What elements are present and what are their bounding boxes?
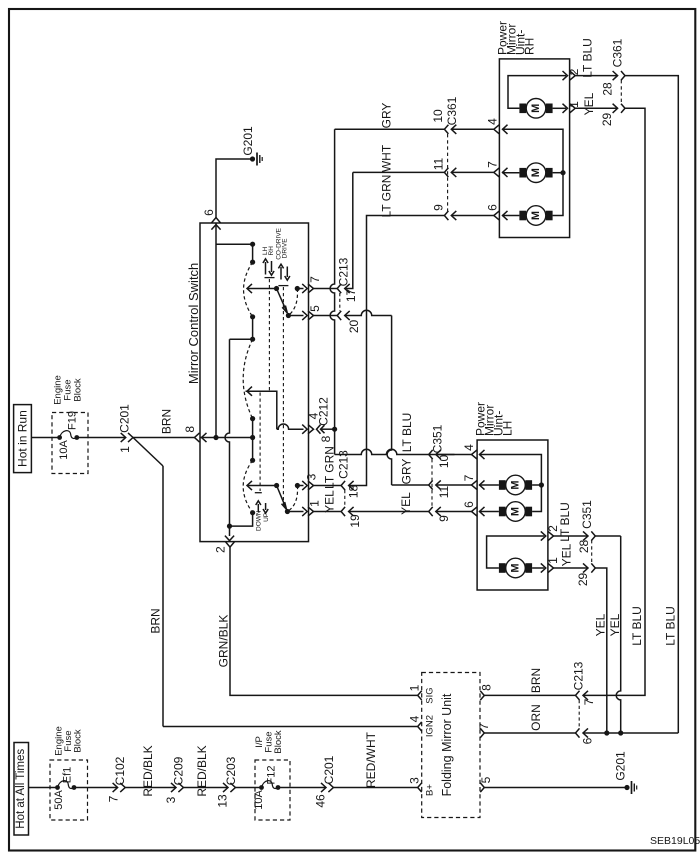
svg-text:5: 5 <box>308 305 322 312</box>
svg-text:7: 7 <box>582 698 596 705</box>
fuse F12 10A <box>253 766 280 810</box>
switch pin 5 <box>308 305 322 320</box>
wire switch pin 1 to C213 <box>314 490 342 513</box>
wire YEL right drop <box>583 108 645 695</box>
connector C351 right dashed link <box>591 540 593 564</box>
svg-text:C201: C201 <box>322 755 336 784</box>
svg-text:RED/BLK: RED/BLK <box>141 745 155 796</box>
svg-text:YEL: YEL <box>399 492 413 515</box>
svg-text:C212: C212 <box>316 397 330 426</box>
svg-text:20: 20 <box>347 320 361 334</box>
svg-text:29: 29 <box>600 113 614 127</box>
svg-text:B+: B+ <box>425 784 436 796</box>
svg-text:Hot in Run: Hot in Run <box>16 410 30 467</box>
switch contact chain upper <box>216 242 255 342</box>
svg-text:1: 1 <box>546 557 560 564</box>
connector C213 pin 19 <box>341 507 362 528</box>
wire YEL LH pin 1 to C351-29 <box>554 543 589 568</box>
svg-text:YEL: YEL <box>582 92 596 115</box>
svg-text:C361: C361 <box>610 38 624 67</box>
svg-text:3: 3 <box>164 796 178 803</box>
svg-text:29: 29 <box>576 573 590 587</box>
switch pin 4 <box>306 412 320 433</box>
svg-text:BRN: BRN <box>149 608 163 633</box>
connector C213 pin 6 (bottom) <box>576 728 595 744</box>
svg-text:C361: C361 <box>445 96 459 125</box>
switch labels LH RH <box>262 246 275 275</box>
ground G201 bottom <box>614 751 637 794</box>
wire GRY row to C351 pin 11 <box>392 484 429 486</box>
svg-text:6: 6 <box>202 209 216 216</box>
connector C351 pin 28 <box>577 500 595 553</box>
wire C351-11 to LH pin 7 <box>436 484 472 486</box>
switch selector linkage dashed lines <box>260 279 283 506</box>
connector C351 dashed link <box>431 459 433 506</box>
svg-text:C213: C213 <box>572 661 586 690</box>
wire LT BLU riser down (to C351-11) <box>387 316 414 486</box>
motor RH vertical-drive <box>519 104 526 114</box>
svg-text:M: M <box>530 104 542 113</box>
folding pin 3 B+ <box>407 777 435 796</box>
folding pin 7 <box>477 723 491 738</box>
unit RH pin 1 <box>567 101 581 113</box>
svg-text:IGN2: IGN2 <box>425 715 436 737</box>
wire C351-9 to LH pin 6 <box>436 511 472 513</box>
switch pin 8 <box>183 426 207 442</box>
wire RH pin 4 inner rail <box>502 129 566 215</box>
wire BRN folding pin 8 to C213-7 <box>484 668 575 696</box>
svg-text:C213: C213 <box>337 257 351 286</box>
wire GRN/BLK switch pin 2 to folding pin 1 <box>217 547 418 695</box>
connector C351 pin 9 <box>429 507 451 522</box>
svg-text:4: 4 <box>485 118 499 125</box>
svg-text:DRIVE: DRIVE <box>282 238 289 259</box>
svg-text:G201: G201 <box>614 751 628 781</box>
svg-text:7: 7 <box>308 276 322 283</box>
connector C201 pin 1 <box>118 404 133 453</box>
switch contact to pin 3 <box>287 481 307 512</box>
switch contact to pin 1 <box>287 511 303 513</box>
fuse block Engine Fuse Block (F19) <box>52 375 88 473</box>
svg-text:ORN: ORN <box>529 704 543 731</box>
connector C209 pin 3 <box>164 756 186 803</box>
switch pin 7 <box>308 276 322 293</box>
wire RH motor3 to pin 6 <box>502 215 519 217</box>
wire RH motor1 to pin 1 <box>553 107 566 109</box>
fuse Ef1 50A <box>53 767 76 810</box>
switch arm lower (DOWN/UP select) <box>247 481 290 514</box>
wire WHT C213-17 riser <box>345 172 353 288</box>
wire C361-10 to RH pin 4 <box>451 128 494 130</box>
svg-text:Block: Block <box>273 730 284 753</box>
svg-text:YEL: YEL <box>560 543 574 566</box>
wire C203 to fuse F12 <box>235 787 261 789</box>
folding pin 1 SIG <box>407 684 435 703</box>
svg-text:6: 6 <box>485 204 499 211</box>
wire C213-6 junction row <box>583 730 678 735</box>
switch labels DOWN UP <box>256 501 271 531</box>
switch contact to pin 7 <box>288 284 307 316</box>
svg-text:M: M <box>510 480 522 489</box>
svg-text:RED/WHT: RED/WHT <box>364 731 378 788</box>
svg-text:LH: LH <box>501 421 515 436</box>
svg-text:WHT: WHT <box>380 144 394 172</box>
svg-text:7: 7 <box>477 723 491 730</box>
unit LH pin 4 <box>462 444 485 459</box>
svg-text:28: 28 <box>601 82 615 96</box>
wire Hot in Run to fuse F19 <box>31 437 59 439</box>
unit box Folding Mirror Unit <box>422 673 480 818</box>
svg-text:1: 1 <box>567 101 581 108</box>
svg-text:10A: 10A <box>253 790 265 810</box>
svg-text:LT GRN: LT GRN <box>380 175 394 218</box>
switch pin 1 <box>308 500 322 516</box>
ground G201 top <box>241 126 262 166</box>
switch contact chain middle <box>243 339 255 463</box>
connector C102 pin 7 <box>107 756 128 802</box>
wire LT BLU RH pin 2 to C361-28 <box>575 38 617 78</box>
svg-text:9: 9 <box>437 515 451 522</box>
node Hot at All Times <box>14 743 29 836</box>
svg-text:4: 4 <box>462 444 476 451</box>
switch pin 2 <box>214 542 235 553</box>
motor LH co-drive <box>499 507 506 517</box>
wire BRN branch diagonal <box>133 438 163 467</box>
wire Hot at All Times to fuse Ef1 <box>29 787 58 789</box>
svg-text:10A: 10A <box>58 440 70 460</box>
svg-text:LT BLU: LT BLU <box>558 502 572 542</box>
svg-text:8: 8 <box>319 435 333 442</box>
connector C203 pin 13 <box>216 756 239 807</box>
unit RH pin 6 <box>485 204 507 220</box>
svg-text:C201: C201 <box>118 404 132 433</box>
wire C361-9 to RH pin 6 <box>451 215 494 217</box>
svg-text:28: 28 <box>577 540 591 554</box>
switch contact to pin 5 <box>288 315 303 317</box>
wire C361-11 to RH pin 7 <box>451 171 494 173</box>
svg-text:F19: F19 <box>67 411 79 430</box>
svg-text:6: 6 <box>462 501 476 508</box>
wire YEL drop from C351-29 <box>594 568 608 733</box>
wire RH motor1 loop to pin 2 <box>508 76 566 109</box>
connector C213 pin 20 <box>337 311 361 333</box>
connector C361 pin 10 <box>431 96 459 134</box>
wire YEL RH pin 1 to C361-29 <box>575 92 617 115</box>
svg-text:G201: G201 <box>241 126 255 156</box>
svg-text:UP: UP <box>263 513 270 522</box>
unit RH pin 4 <box>485 118 507 134</box>
svg-text:M: M <box>530 168 542 177</box>
svg-text:SIG: SIG <box>425 687 436 703</box>
svg-text:C351: C351 <box>580 500 594 529</box>
wire RED/BLK C209 to C203 <box>183 745 228 796</box>
connector C361 pin 28 <box>601 38 625 95</box>
svg-text:1: 1 <box>308 500 322 507</box>
wire LH motor-h to pin 7 <box>479 484 499 486</box>
svg-text:7: 7 <box>462 474 476 481</box>
wire LH motor-h to rail <box>532 484 541 486</box>
svg-text:Folding Mirror Unit: Folding Mirror Unit <box>440 693 454 796</box>
svg-text:RED/BLK: RED/BLK <box>195 745 209 796</box>
svg-text:11: 11 <box>437 485 451 498</box>
svg-text:18: 18 <box>346 485 360 499</box>
connector C351 pin 10 <box>429 424 451 468</box>
wire switch pin 6 rail <box>211 223 220 440</box>
svg-text:GRY: GRY <box>399 459 413 485</box>
fuse F19 10A <box>57 411 79 460</box>
wire GRY riser (C361-10 to C351-10) <box>322 129 336 489</box>
motor RH horizontal-drive <box>519 168 526 178</box>
svg-text:BRN: BRN <box>529 668 543 693</box>
wire folding pin 5 to ground <box>484 787 627 789</box>
folding pin 5 <box>479 776 493 792</box>
svg-text:LT GRN: LT GRN <box>322 446 336 489</box>
svg-text:Block: Block <box>73 729 84 752</box>
wire YEL drop from C351-28 <box>595 536 622 733</box>
svg-text:3: 3 <box>407 777 421 784</box>
svg-text:13: 13 <box>216 794 230 808</box>
connector C213 pin 7 (bottom) <box>572 661 597 728</box>
svg-text:LT BLU: LT BLU <box>664 606 678 646</box>
svg-text:YEL: YEL <box>594 613 608 636</box>
svg-text:C213: C213 <box>336 450 350 479</box>
wire BRN C201 to switch pin 8 <box>133 409 195 438</box>
svg-text:YEL: YEL <box>608 613 622 636</box>
wire LT GRN row to C351 pin 10 <box>335 449 455 454</box>
svg-text:GRY: GRY <box>380 103 394 129</box>
svg-text:6: 6 <box>581 737 595 744</box>
svg-text:LT BLU: LT BLU <box>580 38 594 78</box>
motor RH co-drive <box>519 211 526 221</box>
motor LH horizontal-drive <box>499 480 506 490</box>
connector C361 pin 29 <box>600 104 625 126</box>
svg-text:50A: 50A <box>53 790 65 810</box>
svg-text:M: M <box>530 211 542 220</box>
wire LT BLU C213-20 to riser <box>345 310 392 315</box>
svg-text:10: 10 <box>431 109 445 123</box>
unit box Power Mirror Uint-LH <box>474 402 548 590</box>
wire BRN vertical to folding mirror unit <box>149 466 164 727</box>
svg-text:RH: RH <box>268 246 275 256</box>
wire RED/WHT C201 to folding pin 3 <box>333 731 417 788</box>
wire LH motor-v to pin 1 <box>532 567 544 569</box>
wire switch common rail to pin 2 <box>225 339 253 540</box>
wire fuse F19 to C201 <box>77 437 126 439</box>
svg-text:8: 8 <box>479 684 493 691</box>
connector C361 dashed link <box>447 134 449 211</box>
connector C361 pin 11 <box>432 157 457 177</box>
switch arm middle (drive) to pin 4 <box>246 387 308 434</box>
svg-text:RH: RH <box>523 38 537 55</box>
unit LH pin 1 <box>546 557 560 573</box>
switch selector bars <box>255 278 289 493</box>
wire RH motor2 to rail <box>553 172 563 174</box>
unit RH pin 7 <box>485 161 507 177</box>
wire LT BLU right drop <box>625 76 678 733</box>
wire BRN horizontal to folding pin 4 <box>163 726 418 728</box>
connector C201 pin 46 <box>314 755 337 807</box>
connector C212 pin 8 <box>316 397 333 443</box>
wire LH motor-v loop to pin 2 <box>487 536 545 568</box>
folding pin 8 <box>479 684 493 700</box>
wire fuse F12 to C201 <box>278 787 326 789</box>
svg-text:7: 7 <box>107 795 121 802</box>
svg-text:2: 2 <box>214 546 228 553</box>
svg-text:C209: C209 <box>172 756 186 785</box>
svg-text:LT BLU: LT BLU <box>400 413 414 453</box>
svg-text:BRN: BRN <box>159 409 173 434</box>
fuse block Engine Fuse Block (Ef1) <box>50 726 88 820</box>
wire switch pin 6 to ground G201 <box>216 159 253 218</box>
connector C213 pin 17 <box>337 257 358 311</box>
svg-text:1: 1 <box>407 684 421 691</box>
svg-text:11: 11 <box>432 157 446 170</box>
wire YEL C213-19 to C351 pin 9 <box>349 492 429 515</box>
connector C361 pin 9 <box>432 204 457 220</box>
svg-text:4: 4 <box>407 715 421 722</box>
wire RH motor2 to pin 7 <box>502 172 519 174</box>
svg-text:3: 3 <box>305 473 319 480</box>
unit LH pin 2 <box>546 525 560 541</box>
svg-text:DOWN: DOWN <box>256 510 263 531</box>
svg-text:7: 7 <box>485 161 499 168</box>
unit RH pin 2 <box>567 68 581 80</box>
wire ORN folding pin 7 to C213-6 <box>484 704 575 733</box>
svg-text:Hot at All Times: Hot at All Times <box>15 749 27 829</box>
svg-text:19: 19 <box>348 514 362 528</box>
switch labels CO-DRIVE DRIVE <box>275 227 290 280</box>
svg-text:GRN/BLK: GRN/BLK <box>217 615 231 668</box>
wire switch pin 5 to C213 <box>314 315 338 317</box>
unit LH pin 6 <box>462 501 485 516</box>
switch pin 3 <box>305 473 319 490</box>
svg-text:10: 10 <box>437 455 451 469</box>
unit box Power Mirror Uint-RH <box>496 21 570 238</box>
svg-text:YEL: YEL <box>323 490 337 513</box>
wire WHT horizontal to C361 pin 11 <box>353 144 445 172</box>
wire switch pin 8 row internal <box>200 437 253 439</box>
svg-text:C351: C351 <box>431 424 445 453</box>
connector C213 pin 18 <box>336 450 360 506</box>
svg-text:F12: F12 <box>266 766 278 785</box>
svg-text:2: 2 <box>567 68 581 75</box>
svg-text:SEB19L05: SEB19L05 <box>650 835 700 847</box>
wire C212 pin 8 to GRY riser junction <box>321 428 335 430</box>
svg-text:Mirror Control Switch: Mirror Control Switch <box>186 263 201 384</box>
wire C351-10 to LH pin 4 <box>436 454 472 456</box>
connector C351 pin 29 <box>576 563 596 586</box>
svg-text:C102: C102 <box>113 756 127 785</box>
svg-text:M: M <box>510 507 522 516</box>
svg-text:17: 17 <box>344 289 358 303</box>
wire RED/BLK C102 to C209 <box>125 745 176 796</box>
connector C361 right dashed link <box>620 80 622 104</box>
switch pin 6 <box>202 209 221 223</box>
unit LH pin 7 <box>462 474 485 489</box>
switch box Mirror Control Switch <box>186 223 309 542</box>
wire switch pin 7 to C213 <box>314 288 338 290</box>
wire switch pin 3 to C213 <box>314 485 342 487</box>
svg-text:M: M <box>510 563 522 572</box>
wire LT BLU LH pin 2 to C351-28 <box>554 502 589 542</box>
svg-text:46: 46 <box>314 794 328 808</box>
connector C351 pin 11 <box>429 480 451 498</box>
svg-text:C203: C203 <box>224 756 238 785</box>
wire LT GRN C213-18 riser to C361 pin 9 <box>349 175 445 486</box>
svg-text:9: 9 <box>432 204 446 211</box>
wire GRY horizontal to C361 pin 10 <box>335 103 445 130</box>
switch arm upper (LH/RH select) <box>247 284 291 318</box>
motor LH vertical-drive <box>499 563 506 573</box>
svg-text:Block: Block <box>73 378 84 401</box>
wire fuse Ef1 to C102 <box>74 787 118 789</box>
switch contact chain lower <box>227 460 255 528</box>
node Hot in Run <box>14 405 32 473</box>
svg-text:1: 1 <box>118 446 132 453</box>
folding pin 4 IGN2 <box>407 715 435 737</box>
wire LH motor-c to pin 6 <box>479 511 499 513</box>
svg-text:5: 5 <box>479 776 493 783</box>
wire LH pin 4 inner rail <box>479 455 544 512</box>
fuse block I/P Fuse Block (F12) <box>254 730 290 820</box>
svg-text:8: 8 <box>183 426 197 433</box>
svg-text:Ef1: Ef1 <box>62 767 74 784</box>
svg-text:LT BLU: LT BLU <box>630 606 644 646</box>
